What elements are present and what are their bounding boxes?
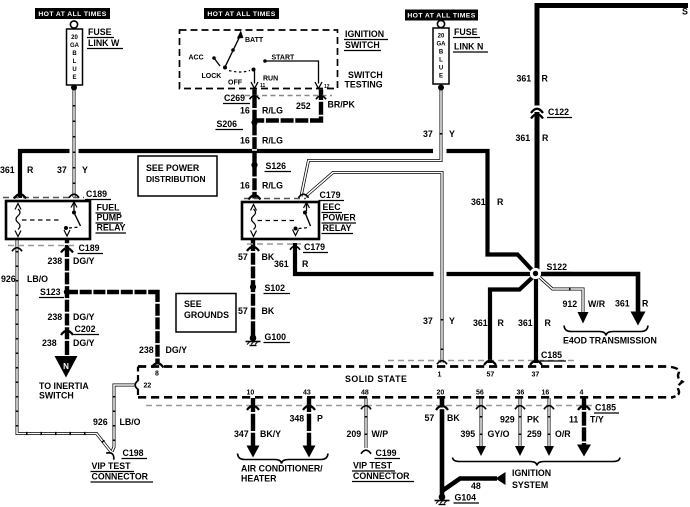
svg-text:HOT AT ALL TIMES: HOT AT ALL TIMES [407,13,475,20]
svg-text:347: 347 [234,429,249,439]
svg-text:37: 37 [423,316,433,326]
wire 48: branch to ignition system [442,479,497,492]
wire 361 R: S122 down to C185 pin 57 [490,276,534,363]
HOT AT ALL TIMES box 2 [204,8,279,19]
wire 11 T/Y: pin 4 [582,398,586,445]
svg-text:GA: GA [437,42,447,48]
wire 361 R: S122 down to C185 pin 37 [534,275,538,363]
wire 37 Y: C179 to solid state pin 1 [306,173,443,364]
splice S123 [39,287,70,298]
svg-text:U: U [72,67,76,73]
svg-text:E: E [439,74,443,80]
wire 238 DG/Y: fuel pump relay down to inertia switch arrow [65,239,69,355]
svg-text:PUMP: PUMP [97,213,123,223]
connector C185 top (gray line + chevrons + label) [388,350,578,365]
svg-text:Y: Y [449,129,455,139]
wire 37 Y: fuse link N to C179 [301,87,441,197]
svg-text:C269: C269 [224,93,245,103]
pin 8 chevron [152,363,164,367]
label SWITCH TESTING [345,70,383,90]
svg-text:RUN: RUN [263,76,278,83]
connector C189 bottom [8,243,103,254]
svg-text:361: 361 [473,318,488,328]
svg-text:SEE POWER: SEE POWER [146,163,200,173]
svg-text:C185: C185 [541,350,562,360]
svg-text:238: 238 [42,338,57,348]
connector C185 bottom (gray line + chevrons + label) [146,403,619,414]
svg-text:C199: C199 [376,448,397,458]
label FUSE LINK W [87,27,123,49]
ground G100 [246,332,291,346]
svg-text:S126: S126 [266,161,287,171]
svg-text:361: 361 [0,165,15,175]
label TO INERTIA SWITCH [39,381,89,401]
solid state pin numbers [144,371,584,397]
connector C199 [361,448,400,459]
svg-text:20: 20 [71,35,78,41]
svg-text:BK: BK [262,252,275,262]
label FUEL PUMP RELAY [96,203,127,234]
label VIP TEST CONNECTOR (middle) [352,461,414,482]
ignition switch dashed box [180,30,338,89]
svg-text:GROUNDS: GROUNDS [184,310,229,320]
wire 361 R bus: S122 to fuel pump relay [20,151,533,271]
svg-text:361: 361 [517,74,532,84]
pin 22 chevron [135,380,139,390]
svg-text:O/R: O/R [555,429,571,439]
svg-text:R: R [302,259,309,269]
svg-text:R: R [642,299,649,309]
svg-text:37: 37 [57,165,67,175]
fuse link W [67,21,83,91]
connector C269 [223,93,332,104]
svg-text:TO INERTIA: TO INERTIA [39,381,89,391]
wire 912 W/R: S122 to E4OD transmission [538,276,584,313]
svg-text:PK: PK [527,415,540,425]
svg-text:R/LG: R/LG [262,136,283,146]
wire 929 PK: pin 36 [519,398,522,446]
label VIP TEST CONNECTOR (left) [91,461,154,482]
svg-text:GY/O: GY/O [488,429,510,439]
wire 37 Y: fuse link W to fuel pump relay [73,87,76,197]
svg-text:BATT: BATT [245,37,264,44]
svg-text:LB/O: LB/O [120,417,141,427]
svg-text:DG/Y: DG/Y [73,338,95,348]
svg-text:C185: C185 [595,403,616,413]
svg-text:20: 20 [438,34,445,40]
svg-text:DG/Y: DG/Y [73,256,95,266]
svg-text:57: 57 [238,252,248,262]
svg-text:Y: Y [82,165,88,175]
svg-text:11: 11 [569,415,578,425]
svg-text:SWITCH: SWITCH [39,391,74,401]
svg-text:SWITCH: SWITCH [345,40,380,50]
wire 259 O/R: pin 16 [548,398,551,446]
label IGNITION SWITCH [344,29,388,51]
svg-text:259: 259 [527,429,542,439]
SEE GROUNDS box [176,294,236,333]
svg-text:OFF: OFF [228,80,243,87]
svg-text:926: 926 [1,274,16,284]
HOT AT ALL TIMES box 3 [405,10,478,21]
svg-text:48: 48 [361,390,369,397]
svg-text:RELAY: RELAY [323,223,352,233]
wire labels [0,74,649,440]
svg-text:W/P: W/P [372,429,389,439]
E4OD brace and label [563,326,657,346]
connector C189 top [3,189,111,200]
svg-text:DG/Y: DG/Y [73,312,95,322]
svg-text:AIR CONDITIONER/: AIR CONDITIONER/ [241,464,323,474]
svg-text:SYSTEM: SYSTEM [512,480,548,490]
label EEC POWER RELAY [322,202,357,234]
wire 361 R: EEC power relay to S122 [295,243,531,274]
svg-text:C202: C202 [75,324,96,334]
svg-text:361: 361 [518,318,533,328]
svg-text:S123: S123 [40,287,61,297]
svg-text:POWER: POWER [323,213,357,223]
svg-text:12: 12 [324,84,330,90]
svg-text:HOT AT ALL TIMES: HOT AT ALL TIMES [207,11,275,18]
svg-text:R: R [497,197,504,207]
svg-text:LINK W: LINK W [88,38,120,48]
wire 16 R/LG: ignition switch to EEC relay [252,90,256,199]
svg-text:C189: C189 [79,243,100,253]
svg-text:Y: Y [449,316,455,326]
svg-text:IGNITION: IGNITION [345,29,384,39]
solid state module dashed box [138,367,683,398]
svg-text:SWITCH: SWITCH [348,70,383,80]
svg-text:48: 48 [471,481,481,491]
svg-text:RELAY: RELAY [97,223,126,233]
HOT AT ALL TIMES box 1 [35,8,110,19]
wire 348 P: pin 43 [307,398,311,446]
svg-text:LOCK: LOCK [202,73,222,80]
svg-text:56: 56 [476,390,484,397]
svg-text:C122: C122 [548,107,569,117]
ignition system brace + label [453,458,621,491]
svg-text:16: 16 [240,181,250,191]
svg-text:VIP TEST: VIP TEST [92,461,132,471]
svg-text:FUSE: FUSE [88,27,112,37]
svg-text:BK: BK [262,306,275,316]
svg-text:L: L [439,58,443,64]
svg-text:FUSE: FUSE [454,27,478,37]
svg-text:DG/Y: DG/Y [166,345,188,355]
svg-text:R: R [498,318,505,328]
svg-text:238: 238 [48,256,63,266]
wire 57 BK: solid state pin 20 to G104 [440,398,445,495]
svg-text:B: B [439,50,444,56]
svg-text:B: B [72,51,77,57]
svg-text:37: 37 [423,129,433,139]
svg-text:361: 361 [516,133,531,143]
svg-text:8: 8 [155,371,159,378]
svg-text:57: 57 [487,372,495,379]
svg-text:GA: GA [70,43,80,49]
svg-text:37: 37 [532,372,540,379]
svg-text:W/R: W/R [588,299,606,309]
svg-text:C198: C198 [123,448,144,458]
connector C198 [106,448,147,460]
svg-text:N: N [63,362,69,371]
svg-text:HOT AT ALL TIMES: HOT AT ALL TIMES [38,11,106,18]
svg-text:LB/O: LB/O [27,274,48,284]
svg-text:57: 57 [425,413,435,423]
svg-text:R: R [545,318,552,328]
svg-text:U: U [439,66,443,72]
svg-text:EEC: EEC [323,202,342,212]
wire 361 R: top right vertical with C122 [537,6,688,273]
splice S102 [250,283,290,294]
thin wires: black outer then white core [17,87,583,453]
svg-text:926: 926 [93,417,108,427]
svg-text:FUEL: FUEL [97,203,121,213]
svg-text:57: 57 [238,306,248,316]
svg-text:DISTRIBUTION: DISTRIBUTION [146,174,206,184]
svg-text:361: 361 [274,259,289,269]
svg-text:238: 238 [139,345,154,355]
svg-text:16: 16 [542,390,550,397]
svg-text:P: P [317,414,323,424]
svg-text:361: 361 [471,197,486,207]
splice S206 [216,119,258,130]
svg-text:BK/Y: BK/Y [260,429,281,439]
svg-text:16: 16 [240,106,250,116]
label FUSE LINK N [453,27,488,52]
fuel pump relay [6,201,90,239]
arrow to inertia switch [55,356,78,378]
svg-text:C179: C179 [320,190,341,200]
svg-text:VIP TEST: VIP TEST [353,461,393,471]
wire 926 LB/O: solid state pin 22 to C198 [112,385,135,452]
svg-text:IGNITION: IGNITION [512,468,551,478]
svg-text:16: 16 [240,136,250,146]
svg-text:R: R [27,165,34,175]
svg-text:929: 929 [500,415,515,425]
wire 395 GY/O: pin 56 [480,398,483,446]
ignition switch internals [189,31,330,91]
wire 57 BK: EEC relay to G100 [251,239,255,336]
splice S126 [251,161,291,172]
svg-text:E: E [72,75,76,81]
svg-text:36: 36 [517,390,525,397]
svg-text:TESTING: TESTING [345,80,383,90]
connector C122 [531,106,572,119]
wire 238 DG/Y: S123 branch to solid state pin 8 [67,292,158,364]
svg-text:395: 395 [461,429,476,439]
svg-text:1: 1 [438,372,442,379]
wire 209 W/P: pin 48 to C199 [365,398,368,448]
EEC power relay [242,202,319,239]
wire 926 LB/O: fuel pump relay to C198 [17,239,112,453]
svg-text:G100: G100 [265,332,287,342]
svg-text:HEATER: HEATER [241,474,277,484]
connector C179 top [244,190,344,201]
svg-text:4: 4 [580,390,584,397]
label S122 [546,262,573,273]
svg-text:S: S [682,7,688,17]
splice S122 [530,268,541,279]
ground G104 [435,493,480,505]
svg-text:R: R [542,74,549,84]
white hash ticks on hashed thick wires [67,94,584,443]
svg-text:START: START [272,55,296,62]
svg-text:R: R [542,133,549,143]
svg-text:10: 10 [247,390,255,397]
air conditioner brace + label [238,454,329,484]
svg-text:S206: S206 [217,119,238,129]
svg-text:252: 252 [296,101,311,111]
svg-text:348: 348 [290,414,305,424]
svg-text:BR/PK: BR/PK [328,100,356,110]
svg-text:BK: BK [447,413,460,423]
svg-text:43: 43 [303,390,311,397]
connector C179 bottom [247,242,328,253]
wire 361 R: S122 to E4OD transmission [536,274,638,312]
fuse link N [433,20,449,90]
SEE POWER DISTRIBUTION box [138,156,217,196]
svg-text:S102: S102 [265,283,286,293]
svg-text:SEE: SEE [184,299,202,309]
svg-text:22: 22 [144,383,152,390]
black hash ticks on thin wires [17,95,580,450]
svg-text:S122: S122 [547,262,568,272]
svg-text:E4OD TRANSMISSION: E4OD TRANSMISSION [563,336,657,346]
svg-text:209: 209 [347,429,362,439]
svg-text:G104: G104 [455,493,477,503]
arrows at thin wire ends [578,312,589,324]
svg-text:C179: C179 [304,242,325,252]
svg-text:CONNECTOR: CONNECTOR [353,471,410,481]
svg-text:20: 20 [437,390,445,397]
svg-text:912: 912 [563,299,578,309]
svg-text:L: L [73,59,77,65]
svg-text:238: 238 [48,312,63,322]
connector C202 [61,324,99,335]
svg-text:LINK N: LINK N [454,42,483,52]
svg-text:C189: C189 [86,189,107,199]
svg-text:R/LG: R/LG [262,106,283,116]
wire 252 BR/PK [255,90,322,121]
svg-text:361: 361 [615,299,630,309]
svg-text:11: 11 [260,83,266,89]
svg-text:SOLID STATE: SOLID STATE [345,374,407,384]
svg-text:ACC: ACC [189,55,204,62]
svg-text:R/LG: R/LG [262,181,283,191]
svg-text:T/Y: T/Y [590,415,604,425]
wire 347 BK/Y: pin 10 [251,398,255,446]
svg-text:CONNECTOR: CONNECTOR [92,472,149,482]
